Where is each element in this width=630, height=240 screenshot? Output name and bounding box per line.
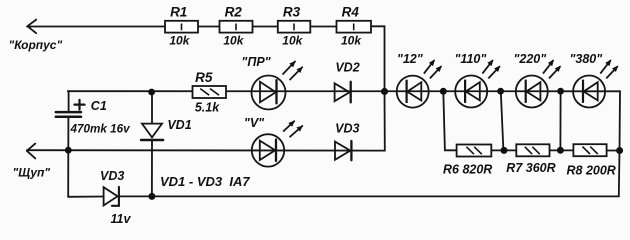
svg-text:R2: R2 [225,4,243,19]
svg-text:10k: 10k [341,34,362,48]
svg-text:5.1k: 5.1k [195,100,220,114]
svg-text:R3: R3 [283,4,301,19]
svg-text:VD1: VD1 [167,118,191,132]
svg-text:C1: C1 [91,99,107,113]
svg-text:"Щуп": "Щуп" [13,166,51,180]
svg-text:R5: R5 [195,70,213,85]
svg-text:R4: R4 [342,4,360,19]
svg-text:R8 200R: R8 200R [567,163,616,177]
svg-text:470mk 16v: 470mk 16v [70,123,132,136]
svg-text:R6 820R: R6 820R [443,163,492,177]
svg-text:"220": "220" [513,52,547,66]
svg-text:"380": "380" [569,52,603,66]
svg-text:"Корпус": "Корпус" [9,38,63,52]
svg-text:"V": "V" [244,116,265,130]
svg-text:VD3: VD3 [335,122,359,136]
svg-text:10k: 10k [223,34,244,48]
svg-text:10k: 10k [169,34,190,48]
svg-text:VD3: VD3 [100,169,124,183]
svg-text:R1: R1 [170,4,187,19]
svg-text:11v: 11v [111,212,132,226]
svg-text:VD2: VD2 [335,61,359,75]
svg-text:R7 360R: R7 360R [506,161,555,175]
svg-text:"110": "110" [455,52,488,66]
svg-text:10k: 10k [282,34,303,48]
svg-text:"12": "12" [397,52,424,66]
svg-text:VD1 - VD3 IA7: VD1 - VD3 IA7 [160,174,250,189]
svg-text:"ПР": "ПР" [241,55,271,69]
